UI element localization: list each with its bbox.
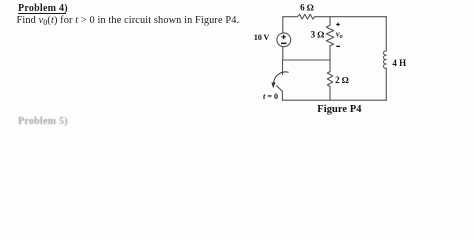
wire right branch lower (385, 68, 387, 100)
resistor R 3ohm zigzag (326, 25, 333, 46)
wire from source top to top rail (283, 17, 298, 33)
switch top stub (282, 60, 284, 75)
problem title text (18, 3, 68, 14)
problem statement text (17, 15, 240, 27)
resistor R 2ohm zigzag (327, 72, 332, 87)
svg-text:3 Ω: 3 Ω (311, 30, 325, 40)
wire bottom rail (283, 99, 387, 101)
resistor R 6ohm zigzag (298, 14, 315, 19)
figure caption (317, 104, 361, 115)
wire middle branch between 3ohm and 2ohm (329, 46, 331, 72)
switch closing arrow arc (274, 72, 289, 83)
wire middle rail (283, 59, 331, 61)
title underline (18, 13, 66, 14)
voltage source minus bar (281, 43, 287, 45)
voltage source V1 10V circle (277, 33, 291, 47)
svg-text:vo: vo (336, 29, 343, 40)
inductor L 4H coil (383, 51, 386, 69)
wire top rail right segment (315, 16, 387, 18)
label vo minus bar (336, 46, 340, 47)
wire top rail left segment (282, 47, 284, 60)
switch blade and bottom stub (277, 86, 283, 100)
faint next-page text "Problem 5)" clipped at bottom (18, 116, 68, 127)
svg-text:4 H: 4 H (392, 58, 406, 68)
label vo plus sign (336, 23, 340, 27)
svg-text:6 Ω: 6 Ω (300, 3, 314, 13)
svg-text:t = 0: t = 0 (263, 92, 278, 101)
svg-text:10 V: 10 V (254, 33, 270, 42)
switch arrow head (271, 82, 275, 88)
wire middle branch bottom (329, 87, 331, 101)
voltage source plus sign (281, 35, 286, 40)
wire right branch upper (385, 17, 387, 51)
wire middle branch top (329, 17, 331, 26)
svg-text:2 Ω: 2 Ω (335, 75, 349, 85)
